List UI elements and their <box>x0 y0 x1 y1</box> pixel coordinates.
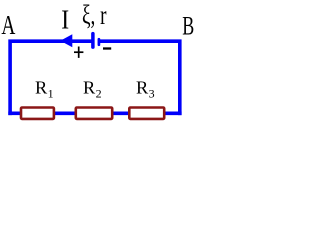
resistor R1 <box>21 108 54 119</box>
wire bottom segment: R2 to R3 <box>113 112 130 116</box>
label R2 <box>83 77 102 100</box>
battery U1 negative plate (short plate) <box>98 39 101 45</box>
resistor R3 <box>129 108 164 119</box>
svg-text:1: 1 <box>48 86 54 100</box>
wire top-right segment and right side (battery - plate to B corner) <box>99 41 180 115</box>
wire bottom segment: R3 to right corner <box>165 112 182 116</box>
wire left side and top-left segment (A corner to battery + plate) <box>10 41 92 115</box>
svg-text:3: 3 <box>149 86 155 100</box>
svg-text:2: 2 <box>96 86 102 100</box>
battery plus terminal label <box>74 47 83 58</box>
current arrow (points left along top wire) <box>60 34 72 47</box>
battery minus terminal label <box>103 47 111 49</box>
label R1 <box>35 77 54 100</box>
battery U1 positive plate (long plate) <box>91 34 95 48</box>
svg-text:R: R <box>35 77 48 97</box>
wire bottom segment: left corner to R1 <box>8 112 21 116</box>
svg-text:R: R <box>83 77 96 97</box>
svg-text:A: A <box>1 9 15 40</box>
svg-text:R: R <box>136 77 149 97</box>
svg-text:ξ, r: ξ, r <box>82 0 107 30</box>
svg-text:I: I <box>61 4 69 35</box>
resistor R2 <box>76 108 112 119</box>
label R3 <box>136 77 155 100</box>
wire bottom segment: R1 to R2 <box>54 112 76 116</box>
svg-text:B: B <box>182 11 194 41</box>
